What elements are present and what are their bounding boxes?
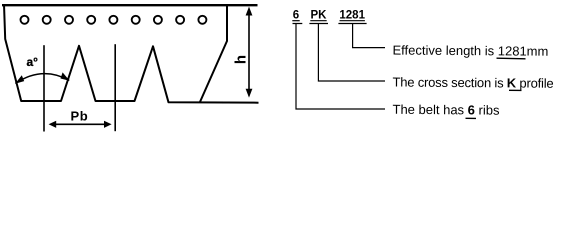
- angle arc arrowhead left: [15, 75, 24, 84]
- belt left edge and ribbed bottom profile: [4, 4, 259, 103]
- rib centerline 1: [43, 45, 45, 131]
- svg-text:The cross section is K profile: The cross section is K profile: [392, 75, 553, 91]
- cord circle 9: [198, 16, 206, 24]
- cord circle 4: [87, 16, 95, 24]
- cord circle 3: [65, 16, 73, 24]
- angle arc arrowhead right: [61, 72, 70, 80]
- svg-text:1281: 1281: [339, 9, 365, 21]
- angle dimension arc: [15, 74, 69, 84]
- h dimension arrow: [246, 7, 253, 98]
- cord circle 1: [21, 16, 29, 24]
- leader from PK: [309, 24, 385, 82]
- belt top line (with h extension): [2, 4, 258, 6]
- belt right edge: [200, 4, 227, 102]
- svg-text:a°: a°: [27, 55, 39, 69]
- leader from 1281: [338, 24, 385, 48]
- cord circle 6: [132, 16, 140, 24]
- cord circle 2: [43, 16, 51, 24]
- svg-text:The belt has 6 ribs: The belt has 6 ribs: [392, 102, 500, 118]
- leader from 6: [293, 24, 386, 110]
- svg-text:Pb: Pb: [71, 109, 89, 124]
- svg-text:6: 6: [293, 9, 299, 21]
- svg-text:Effective length is 1281mm: Effective length is 1281mm: [392, 43, 548, 59]
- cord circle 5: [109, 16, 117, 24]
- svg-text:PK: PK: [311, 9, 328, 21]
- svg-text:h: h: [232, 55, 249, 64]
- rib centerline 2: [114, 44, 116, 131]
- cord circle 7: [154, 16, 162, 24]
- cord circle 8: [176, 16, 184, 24]
- Pb dimension arrow: [49, 121, 112, 128]
